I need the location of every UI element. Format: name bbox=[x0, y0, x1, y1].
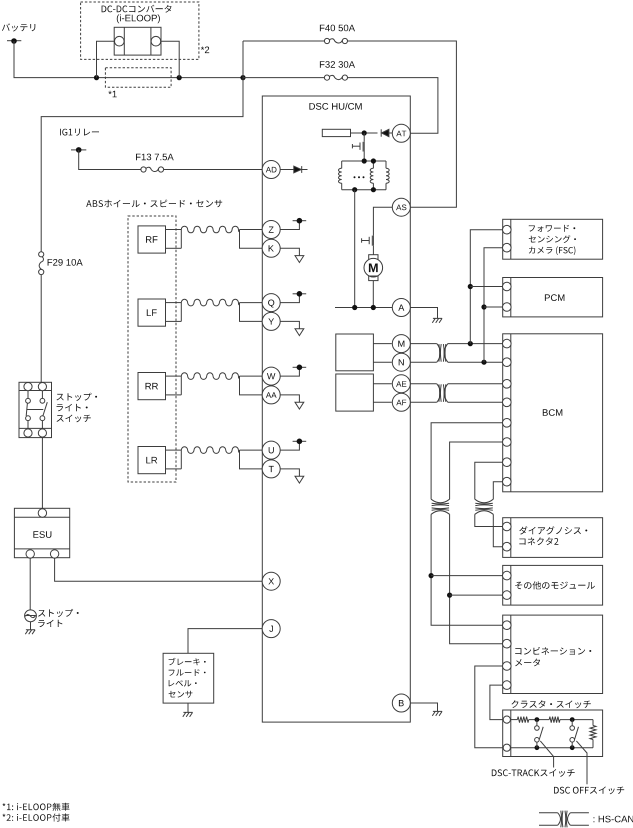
wire BCM pin6 CAN bbox=[450, 442, 503, 499]
ESU label bbox=[33, 531, 51, 538]
wire meter pin4 to cluster pin1 bbox=[490, 685, 503, 720]
pin AS bbox=[392, 198, 410, 216]
ground at Y bbox=[280, 321, 299, 328]
wire to fuse F40 bbox=[243, 40, 324, 42]
wire ESU to stop light bbox=[29, 558, 31, 610]
pin K bbox=[262, 239, 280, 257]
wire twisted pair to pins W/AA bbox=[240, 375, 263, 377]
ABS sensor label bbox=[86, 200, 222, 208]
solenoid valve block bbox=[342, 160, 386, 162]
wire MOSFET to solenoid rail bbox=[363, 152, 365, 162]
wire to PCM pin1 bbox=[470, 286, 502, 288]
DSC OFF pointer bbox=[576, 741, 587, 784]
node AT junction bbox=[362, 130, 367, 135]
HS-CAN twist BCM lower pair2 bbox=[475, 499, 494, 503]
module other modules box bbox=[503, 565, 603, 605]
pin AD bbox=[262, 161, 280, 179]
stop light switch label bbox=[57, 393, 98, 401]
module cluster switch box bbox=[503, 710, 603, 757]
fuse F13 bbox=[141, 167, 146, 172]
wire lamp to ground bbox=[30, 622, 32, 630]
DSC OFF switch label bbox=[554, 787, 624, 795]
ground at T bbox=[280, 469, 299, 476]
pin J bbox=[262, 620, 280, 638]
node solenoid top left bbox=[362, 158, 367, 163]
twisted pair LF bbox=[181, 299, 239, 306]
DC-DC converter label bbox=[102, 5, 172, 13]
combination meter label bbox=[515, 647, 591, 655]
module combination meter box bbox=[503, 615, 603, 693]
twisted pair RF bbox=[181, 226, 239, 233]
wire LF sensor leads bbox=[166, 302, 182, 304]
cluster switch bottom rail bbox=[511, 747, 593, 749]
stop light lamp bbox=[25, 610, 37, 622]
node DC-DC right junction bbox=[177, 75, 182, 80]
wire BCM pin5 CAN bbox=[431, 423, 503, 499]
fuse F32 bbox=[324, 75, 329, 80]
wire pin M CAN-H bbox=[410, 343, 437, 345]
MOSFET Q2 bbox=[372, 236, 374, 246]
footnote *2 bbox=[3, 813, 70, 821]
wire switch to ESU bbox=[41, 438, 43, 509]
wire DC-DC left lead bbox=[97, 41, 115, 77]
wire pair1 right down to meter pin2 bbox=[450, 514, 503, 643]
wire CAN-H to FSC pin1 bbox=[470, 230, 502, 344]
node solenoid top right bbox=[371, 158, 376, 163]
wire LR sensor leads bbox=[166, 449, 182, 451]
MOSFET Q1 bbox=[363, 142, 365, 152]
wire to PCM pin2 bbox=[484, 306, 503, 308]
wire BCM pin8 CAN bbox=[493, 482, 502, 500]
wire battery to F32/F40 junction bbox=[14, 41, 243, 78]
dashed box *1 bbox=[105, 68, 171, 88]
wire pin AF bbox=[410, 401, 437, 403]
stop light switch bbox=[19, 382, 52, 437]
pin U bbox=[262, 441, 280, 459]
wire A rail bbox=[335, 307, 392, 309]
wire pin A to ground bbox=[410, 308, 437, 319]
cluster switch top rail bbox=[511, 719, 517, 721]
DSC OFF switch bbox=[571, 720, 573, 726]
node PCM CAN-L tap bbox=[481, 304, 486, 309]
wire twisted pair to pins Q/Y bbox=[240, 302, 263, 304]
pull-up stub at Q bbox=[280, 294, 299, 303]
label F32 30A bbox=[320, 61, 355, 68]
BCM label bbox=[543, 409, 563, 416]
wire solenoid to A rail bbox=[354, 190, 356, 308]
wire F29 to stop light switch bbox=[40, 275, 42, 384]
wire ESU to pin X bbox=[55, 558, 263, 581]
module BCM box bbox=[503, 334, 603, 492]
pin Z bbox=[262, 221, 280, 239]
pin B bbox=[392, 694, 410, 712]
diode at AT bbox=[380, 129, 382, 136]
pin M bbox=[392, 335, 410, 353]
node A rail right bbox=[371, 305, 376, 310]
pin A bbox=[392, 299, 410, 317]
HS-CAN twist BCM lower pair1 bbox=[431, 499, 450, 503]
label F13 7.5A bbox=[136, 154, 174, 161]
DSC HU/CM module box bbox=[262, 96, 410, 722]
actuator box 1 bbox=[336, 334, 374, 371]
DSC HU/CM label bbox=[309, 103, 361, 110]
DSC-TRACK switch bbox=[536, 720, 538, 726]
stop light label bbox=[38, 609, 79, 617]
pin X bbox=[262, 572, 280, 590]
wire RF sensor leads bbox=[166, 229, 182, 231]
node CAN-H tap bbox=[468, 341, 473, 346]
module FSC box bbox=[503, 219, 603, 259]
wire pair2 right to diagnosis pin2 bbox=[493, 514, 502, 546]
node other-modules pin2 tap bbox=[447, 593, 452, 598]
wire junction up to F40 bbox=[242, 41, 244, 78]
brake fluid level sensor label bbox=[169, 658, 206, 666]
HS-CAN legend symbol bbox=[539, 812, 558, 814]
pin W bbox=[262, 367, 280, 385]
label *1 bbox=[108, 91, 116, 98]
wire twisted pair to pins U/T bbox=[240, 449, 263, 451]
resistor R3 vertical bbox=[592, 720, 594, 726]
wire pair1 left down to meter pin1 bbox=[431, 514, 503, 625]
cluster switch label bbox=[512, 700, 591, 708]
HS-CAN twist M/N bbox=[437, 344, 441, 363]
wire to other modules pin1 bbox=[431, 575, 503, 577]
wire pin J to brake fluid sensor bbox=[188, 629, 262, 654]
PCM label bbox=[545, 294, 565, 301]
pin Q bbox=[262, 294, 280, 312]
wire junction down-left to F29 bbox=[41, 78, 243, 252]
wire BCM pin7 CAN bbox=[475, 462, 503, 499]
wire F32 to pin AT bbox=[348, 78, 438, 134]
wire meter pin3 to cluster pin2 bbox=[475, 666, 503, 748]
twisted pair RR bbox=[181, 373, 239, 380]
wire AT junction down to MOSFET bbox=[363, 133, 365, 142]
node PCM CAN-H tap bbox=[468, 284, 473, 289]
wire MOSFET to motor bbox=[372, 246, 374, 255]
IG1 relay terminal bbox=[71, 149, 86, 151]
fuse F40 bbox=[324, 38, 329, 43]
pin AT bbox=[392, 124, 410, 142]
pin Y bbox=[262, 312, 280, 330]
actuator box 2 bbox=[336, 374, 374, 411]
pin AE bbox=[392, 375, 410, 393]
diode at AD bbox=[280, 169, 293, 171]
node sw1 top bbox=[535, 717, 540, 722]
wire AS to MOSFET bbox=[373, 207, 392, 235]
pump motor M bbox=[369, 255, 378, 260]
node sw2 top bbox=[570, 717, 575, 722]
wheel speed sensor RR bbox=[138, 373, 166, 400]
ABS sensors dashed box bbox=[128, 216, 176, 482]
HS-CAN legend text bbox=[594, 816, 633, 823]
ground at AA bbox=[280, 395, 299, 402]
node DC-DC left junction bbox=[94, 75, 99, 80]
fuse F29 bbox=[39, 252, 44, 257]
resistor R1 bbox=[517, 717, 528, 723]
wire RR sensor leads bbox=[166, 375, 182, 377]
node solenoid bottom left bbox=[352, 187, 357, 192]
DSC-TRACK switch label bbox=[492, 769, 575, 777]
pin N bbox=[392, 353, 410, 371]
pull-up stub at Z bbox=[280, 221, 299, 230]
wire F13 to pin AD bbox=[164, 169, 263, 171]
wire pair2 left to diagnosis pin1 bbox=[475, 514, 503, 526]
wire to other modules pin2 bbox=[450, 594, 503, 596]
i-ELOOP label bbox=[117, 14, 160, 23]
node sw1 bottom bbox=[535, 745, 540, 750]
wheel speed sensor RF bbox=[138, 226, 166, 253]
node solenoid bottom right bbox=[371, 187, 376, 192]
battery label bbox=[2, 23, 35, 31]
DC-DC converter relay body bbox=[114, 27, 161, 55]
wire CAN-L to FSC pin2 bbox=[484, 248, 503, 363]
ground at brake fluid sensor bbox=[183, 712, 193, 716]
wire pin AE bbox=[410, 383, 437, 385]
pin AF bbox=[392, 393, 410, 411]
node A rail left bbox=[352, 305, 357, 310]
ground at pin A bbox=[432, 318, 442, 322]
node main B+ junction bbox=[240, 75, 245, 80]
wire motor to A rail bbox=[372, 281, 374, 308]
module diagnosis connector 2 box bbox=[503, 518, 603, 558]
diagnosis connector 2 label bbox=[519, 526, 587, 534]
wheel speed sensor LR bbox=[138, 447, 166, 474]
pin T bbox=[262, 460, 280, 478]
wire pin B to ground bbox=[410, 703, 437, 711]
resistor R2 bbox=[549, 717, 560, 723]
battery terminal bbox=[7, 40, 21, 42]
node CAN-L tap bbox=[481, 360, 486, 365]
wire twisted pair to pins Z/K bbox=[240, 229, 263, 231]
label *2 bbox=[201, 47, 209, 54]
twisted pair LR bbox=[181, 447, 239, 454]
label F29 10A bbox=[48, 259, 83, 266]
wire resistor to diode bbox=[351, 132, 378, 134]
IG1 relay label bbox=[60, 129, 99, 136]
pin AA bbox=[262, 386, 280, 404]
wire to fuse F32 bbox=[243, 77, 324, 79]
footnote *1 bbox=[3, 803, 70, 811]
wire DC-DC right lead bbox=[161, 41, 179, 77]
HS-CAN twist AE/AF bbox=[437, 384, 441, 403]
wire F40 to pin AS bbox=[348, 41, 457, 207]
wire IG1 to fuse F13 bbox=[79, 150, 141, 170]
DC-DC converter dashed outline *2 bbox=[81, 2, 199, 59]
DSC-TRACK pointer bbox=[540, 741, 553, 768]
module PCM box bbox=[503, 278, 603, 317]
ESU box bbox=[14, 508, 69, 557]
resistor at AT bbox=[322, 129, 350, 136]
node other-modules pin1 tap bbox=[429, 573, 434, 578]
pull-up stub at U bbox=[280, 441, 299, 450]
pull-up stub at W bbox=[280, 367, 299, 376]
ground at stop light bbox=[25, 630, 35, 634]
wire sensor to ground bbox=[187, 703, 189, 712]
wheel speed sensor LF bbox=[138, 299, 166, 326]
ground at pin B bbox=[432, 711, 442, 715]
node sw2 bottom bbox=[570, 745, 575, 750]
wire pin N CAN-L bbox=[410, 361, 437, 363]
label F40 50A bbox=[320, 25, 355, 32]
ground at K bbox=[280, 248, 299, 255]
FSC label bbox=[529, 225, 576, 232]
other modules label bbox=[515, 581, 595, 589]
brake fluid level sensor box bbox=[163, 653, 214, 703]
